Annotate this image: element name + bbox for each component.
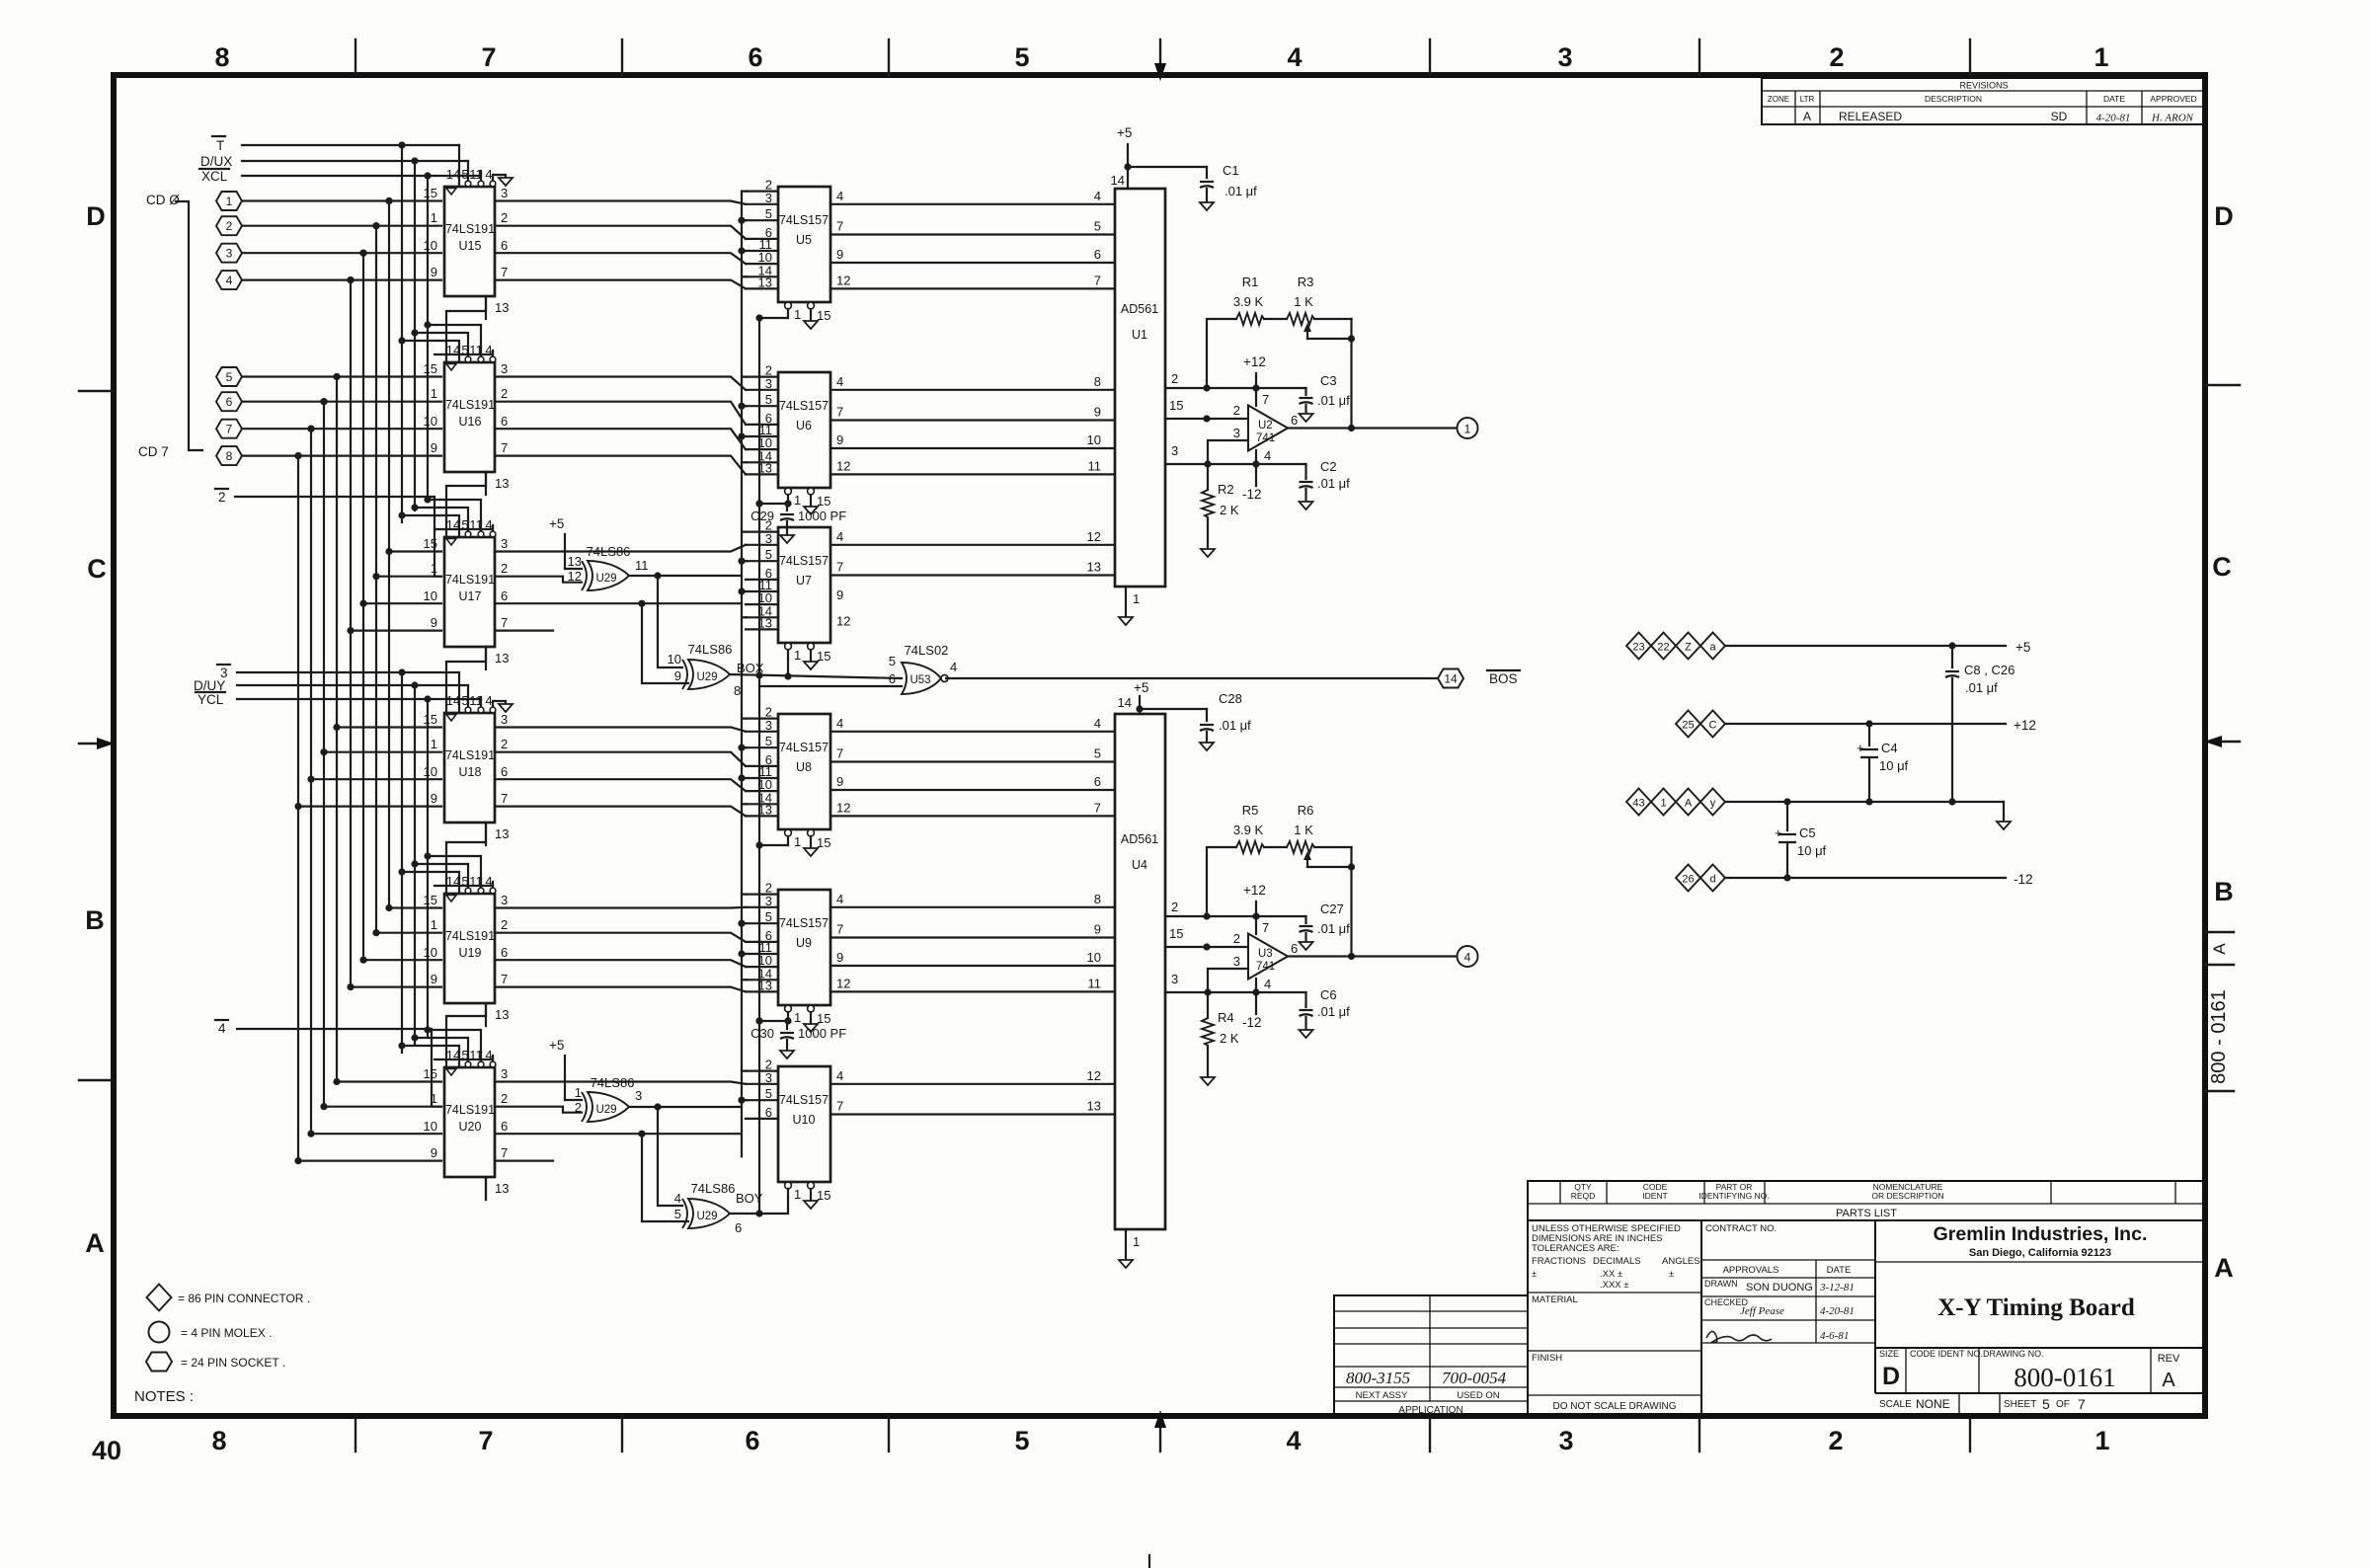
- svg-text:10: 10: [1087, 432, 1101, 447]
- svg-text:3: 3: [501, 536, 508, 551]
- svg-text:741: 741: [1256, 432, 1275, 444]
- svg-text:ANGLES: ANGLES: [1662, 1256, 1700, 1267]
- svg-text:U2: U2: [1258, 420, 1273, 431]
- ground at U10 pin 15: [804, 1201, 818, 1209]
- svg-text:U18: U18: [459, 765, 482, 779]
- svg-text:5: 5: [226, 370, 233, 384]
- counter U18 (74LS191): [424, 693, 510, 845]
- svg-text:X-Y Timing Board: X-Y Timing Board: [1937, 1294, 2135, 1321]
- svg-text:R1: R1: [1242, 274, 1259, 289]
- ground at U7 pin 15: [804, 662, 818, 669]
- svg-text:10: 10: [668, 652, 681, 666]
- svg-text:4: 4: [1264, 448, 1271, 463]
- svg-text:SON DUONG: SON DUONG: [1746, 1282, 1813, 1294]
- bottom center tick mark: [1148, 1555, 1150, 1568]
- wire op-amp pin 7: [1255, 916, 1257, 934]
- counter U16 (74LS191): [424, 343, 510, 495]
- svg-text:.01 μf: .01 μf: [1317, 476, 1350, 491]
- svg-text:= 86 PIN CONNECTOR .: = 86 PIN CONNECTOR .: [178, 1292, 310, 1305]
- svg-text:13: 13: [495, 476, 509, 491]
- svg-text:74LS157: 74LS157: [779, 741, 829, 754]
- svg-text:USED ON: USED ON: [1457, 1390, 1499, 1401]
- wire U29a output: [629, 572, 742, 579]
- svg-text:BOS: BOS: [1489, 671, 1518, 686]
- connector pin 3 (24 pin socket): [216, 244, 242, 263]
- svg-text:D: D: [86, 201, 106, 231]
- DAC U4 (AD561): [1115, 714, 1165, 1229]
- svg-text:12: 12: [836, 800, 850, 815]
- svg-text:U16: U16: [459, 415, 482, 429]
- svg-text:1: 1: [431, 1091, 437, 1106]
- svg-text:A: A: [1685, 798, 1693, 810]
- wire DAC pin 3 net: [1165, 443, 1306, 468]
- svg-text:74LS191: 74LS191: [445, 222, 495, 236]
- svg-text:9: 9: [674, 668, 681, 683]
- svg-text:8: 8: [1094, 892, 1101, 906]
- svg-text:U8: U8: [796, 760, 812, 774]
- ground at C28: [1200, 743, 1214, 750]
- border frame: [114, 75, 2205, 1416]
- svg-text:5: 5: [765, 1086, 772, 1101]
- zone numbers top: [214, 42, 2108, 72]
- svg-text:U29: U29: [696, 1211, 717, 1222]
- svg-text:U3: U3: [1258, 948, 1273, 960]
- svg-text:1: 1: [431, 917, 437, 932]
- wire BOX output to U53: [730, 671, 902, 679]
- wire CD7: [242, 452, 441, 459]
- svg-text:U10: U10: [793, 1113, 816, 1127]
- ground at C27: [1300, 942, 1313, 950]
- wire feedback left leg: [1207, 847, 1236, 916]
- svg-text:4: 4: [950, 660, 957, 674]
- capacitor C27 .01uf: [1300, 902, 1351, 942]
- svg-text:2: 2: [1171, 371, 1178, 386]
- svg-text:3: 3: [765, 191, 772, 205]
- wire YCL: [237, 695, 481, 702]
- svg-text:D/UY: D/UY: [194, 678, 225, 693]
- svg-text:1000 PF: 1000 PF: [798, 1026, 846, 1041]
- +5 at U29c: [549, 1038, 582, 1100]
- svg-text:XCL: XCL: [201, 169, 228, 184]
- wire bundle: counter clock/control taps: [398, 145, 493, 1059]
- svg-text:4: 4: [1464, 951, 1471, 965]
- svg-text:15: 15: [424, 1066, 437, 1081]
- svg-text:6: 6: [1291, 941, 1298, 956]
- ground at R4: [1201, 1077, 1215, 1085]
- connector pin 6 (24 pin socket): [216, 392, 242, 411]
- wire BOY output to U10 pin1: [730, 1198, 788, 1217]
- svg-text:ZONE: ZONE: [1768, 95, 1789, 104]
- svg-text:2: 2: [501, 386, 508, 401]
- svg-text:7: 7: [501, 265, 508, 279]
- svg-text:1: 1: [794, 1187, 801, 1202]
- svg-text:74LS157: 74LS157: [779, 554, 829, 568]
- svg-text:9: 9: [836, 950, 843, 965]
- svg-text:2: 2: [501, 210, 508, 225]
- svg-text:10: 10: [424, 588, 437, 603]
- ground at C1: [1200, 202, 1214, 210]
- svg-text:7: 7: [226, 423, 233, 436]
- svg-text:+12: +12: [1243, 354, 1266, 369]
- svg-text:5: 5: [1094, 746, 1101, 761]
- svg-text:-12: -12: [1242, 487, 1262, 502]
- svg-text:3-12-81: 3-12-81: [1819, 1282, 1855, 1294]
- svg-text:IDENT: IDENT: [1642, 1191, 1668, 1201]
- svg-text:D: D: [2214, 201, 2234, 231]
- svg-text:U17: U17: [459, 589, 482, 603]
- +12 supply at op-amp: [1243, 883, 1266, 916]
- wire -12 rail: [1725, 872, 2033, 887]
- connector output 1 (4 pin molex): [1458, 418, 1478, 438]
- svg-text:BOY: BOY: [736, 1191, 763, 1206]
- svg-text:4: 4: [836, 892, 843, 906]
- resistor R4 2K: [1202, 992, 1239, 1077]
- svg-text:13: 13: [495, 826, 509, 841]
- wire CD3: [242, 276, 441, 283]
- wire between resistors: [1264, 318, 1287, 320]
- svg-text:3.9 K: 3.9 K: [1233, 823, 1264, 837]
- node D/UX: [200, 154, 232, 169]
- svg-text:5: 5: [674, 1207, 681, 1221]
- svg-text:11: 11: [1088, 458, 1102, 473]
- svg-text:1: 1: [794, 307, 801, 322]
- svg-text:2: 2: [501, 737, 508, 751]
- wire +5 rail: [1725, 640, 2030, 655]
- application block: [1334, 1295, 1528, 1416]
- wire U6 pin 1 to select bus: [759, 503, 788, 505]
- svg-text:6: 6: [748, 42, 762, 72]
- svg-text:4: 4: [485, 693, 492, 708]
- legend: 86 pin connector symbol: [147, 1285, 311, 1311]
- svg-text:5: 5: [889, 654, 896, 668]
- svg-text:Jeff Pease: Jeff Pease: [1740, 1305, 1784, 1317]
- wire U9 pin 1 to select bus: [759, 1020, 788, 1022]
- svg-text:1: 1: [794, 834, 801, 849]
- svg-text:a: a: [1709, 642, 1716, 654]
- svg-text:2: 2: [218, 490, 226, 505]
- resistor R5 3.9K: [1233, 803, 1264, 853]
- svg-text:6: 6: [501, 945, 508, 960]
- wire pot wiper / feedback right leg: [1307, 319, 1355, 431]
- svg-text:FINISH: FINISH: [1532, 1353, 1562, 1364]
- svg-text:3: 3: [501, 893, 508, 907]
- svg-text:4: 4: [836, 189, 843, 203]
- svg-text:1: 1: [1660, 798, 1666, 810]
- svg-text:13: 13: [1087, 560, 1101, 575]
- xor gate U29c (74LS86): [575, 1075, 642, 1122]
- node T (overline): [212, 136, 225, 153]
- connector pin 1 (24 pin socket): [216, 192, 242, 210]
- svg-text:6: 6: [501, 588, 508, 603]
- svg-text:3: 3: [1233, 954, 1240, 969]
- multiplexer U7 (74LS157): [746, 518, 850, 664]
- svg-text:4: 4: [836, 1068, 843, 1083]
- svg-text:d: d: [1709, 874, 1715, 886]
- svg-text:2 K: 2 K: [1220, 503, 1239, 517]
- svg-text:= 4 PIN MOLEX .: = 4 PIN MOLEX .: [181, 1326, 272, 1340]
- svg-text:7: 7: [836, 219, 843, 234]
- counter U15 (74LS191): [424, 167, 510, 319]
- svg-text:.01 μf: .01 μf: [1317, 921, 1350, 936]
- svg-text:2: 2: [575, 1100, 582, 1115]
- wire ground rail: [1725, 798, 2004, 822]
- svg-text:1: 1: [1133, 1234, 1140, 1249]
- ground at U15 pin 4: [493, 175, 513, 186]
- svg-text:7: 7: [501, 1145, 508, 1160]
- svg-text:+12: +12: [1243, 883, 1266, 898]
- ground at U8 pin 15: [804, 848, 818, 856]
- wire op-amp pin 7: [1255, 388, 1257, 406]
- svg-text:3: 3: [226, 247, 233, 261]
- centerline arrow top: [1154, 39, 1166, 81]
- multiplexer U5 (74LS157): [746, 178, 850, 323]
- svg-text:.01 μf: .01 μf: [1219, 718, 1251, 733]
- wire CD0: [242, 197, 441, 204]
- svg-text:6: 6: [226, 395, 233, 409]
- svg-text:C: C: [87, 554, 107, 584]
- svg-text:-12: -12: [1242, 1015, 1262, 1030]
- svg-text:.XXX ±: .XXX ±: [1600, 1280, 1629, 1291]
- svg-text:+5: +5: [549, 1038, 564, 1053]
- potentiometer R6 1K: [1287, 803, 1314, 867]
- svg-text:2: 2: [1829, 42, 1844, 72]
- zone letters left: [85, 201, 107, 1258]
- wire DAC pin 15 to op-amp: [1165, 926, 1248, 951]
- wire between resistors: [1264, 846, 1287, 848]
- svg-text:+: +: [1775, 825, 1782, 840]
- wire CD2: [242, 250, 441, 257]
- svg-text:U5: U5: [796, 233, 812, 247]
- svg-text:74LS157: 74LS157: [779, 213, 829, 227]
- legend: 4 pin molex symbol: [149, 1322, 273, 1343]
- svg-text:6: 6: [1094, 247, 1101, 262]
- svg-text:U29: U29: [696, 671, 717, 683]
- svg-text:7: 7: [501, 791, 508, 806]
- svg-text:800-0161: 800-0161: [2014, 1363, 2116, 1392]
- ground at C29: [780, 535, 794, 543]
- svg-text:MATERIAL: MATERIAL: [1532, 1294, 1578, 1305]
- svg-text:800 - 0161: 800 - 0161: [2208, 989, 2230, 1084]
- svg-text:10 μf: 10 μf: [1879, 758, 1909, 773]
- svg-text:.01 μf: .01 μf: [1224, 184, 1257, 198]
- svg-text:6: 6: [889, 671, 896, 686]
- svg-text:4: 4: [226, 274, 233, 287]
- svg-text:25: 25: [1682, 720, 1694, 732]
- svg-text:2: 2: [1233, 403, 1240, 418]
- wire U29c output to BOY gate input 4: [658, 1107, 682, 1206]
- resistor R2 2K: [1202, 464, 1239, 549]
- svg-text:15: 15: [424, 893, 437, 907]
- node 3bar label: [217, 665, 230, 680]
- wire U5 pin 1 to select bus: [759, 317, 788, 319]
- svg-text:A: A: [2214, 1253, 2234, 1283]
- ground at U6 pin 15: [804, 507, 818, 514]
- svg-text:13: 13: [495, 300, 509, 315]
- svg-text:10 μf: 10 μf: [1797, 843, 1827, 858]
- svg-text:1: 1: [2094, 1426, 2109, 1455]
- svg-text:6: 6: [501, 1119, 508, 1134]
- svg-text:+5: +5: [1134, 680, 1148, 695]
- CD bracket: [176, 201, 202, 450]
- svg-text:+5: +5: [2015, 640, 2030, 655]
- wire T: [242, 141, 459, 148]
- svg-text:13: 13: [495, 1181, 509, 1196]
- ground at rail: [1997, 822, 2011, 829]
- +5 rail at U4 pin 14: [1118, 680, 1149, 714]
- svg-text:3.9 K: 3.9 K: [1233, 294, 1264, 309]
- svg-text:11: 11: [635, 558, 649, 573]
- svg-text:R4: R4: [1218, 1010, 1234, 1025]
- svg-text:AD561: AD561: [1121, 302, 1158, 316]
- svg-text:OR DESCRIPTION: OR DESCRIPTION: [1871, 1191, 1943, 1201]
- svg-text:4: 4: [836, 716, 843, 731]
- svg-text:74LS157: 74LS157: [779, 1093, 829, 1107]
- svg-text:10: 10: [1087, 950, 1101, 965]
- svg-text:40: 40: [92, 1436, 121, 1465]
- svg-text:2: 2: [501, 917, 508, 932]
- capacitor C30 1000 PF: [750, 1017, 846, 1051]
- svg-text:4: 4: [1286, 1426, 1301, 1455]
- multiplexer U9 (74LS157): [746, 881, 850, 1026]
- capacitor C6 .01uf: [1300, 987, 1351, 1030]
- svg-text:4: 4: [218, 1021, 226, 1036]
- capacitor C8,C26 .01uf: [1945, 646, 2014, 802]
- svg-text:6: 6: [1291, 413, 1298, 428]
- svg-text:NEXT ASSY: NEXT ASSY: [1356, 1390, 1408, 1401]
- centerline arrow left: [79, 738, 115, 749]
- svg-text:7: 7: [501, 972, 508, 986]
- svg-text:74LS86: 74LS86: [688, 642, 733, 657]
- svg-text:+5: +5: [1117, 125, 1132, 140]
- svg-text:74LS157: 74LS157: [779, 916, 829, 930]
- svg-text:C28: C28: [1219, 691, 1242, 706]
- svg-text:9: 9: [431, 265, 437, 279]
- xor gate U29b (74LS86) BOX: [668, 642, 764, 698]
- svg-text:15: 15: [424, 712, 437, 727]
- counter U17 (74LS191): [424, 517, 510, 669]
- svg-text:1: 1: [2093, 42, 2108, 72]
- ground at C6: [1300, 1030, 1313, 1038]
- svg-text:3: 3: [1171, 972, 1178, 986]
- node 2bar label: [215, 489, 228, 505]
- svg-text:1: 1: [575, 1085, 582, 1100]
- wire DAC pin 3 net: [1165, 972, 1306, 996]
- ground at U1 pin 1: [1119, 587, 1140, 625]
- svg-text:C27: C27: [1320, 902, 1344, 916]
- connector diamonds 23/22/Z/a (+5 feed): [1626, 633, 1725, 660]
- svg-text:7: 7: [481, 42, 496, 72]
- svg-text:C: C: [1709, 720, 1717, 732]
- wire D/UX: [242, 157, 468, 164]
- wire CD5: [242, 398, 441, 405]
- svg-text:DRAWN: DRAWN: [1704, 1279, 1738, 1289]
- svg-text:3: 3: [1233, 426, 1240, 440]
- +12 supply at op-amp: [1243, 354, 1266, 388]
- wire DAC pin 2 net: [1165, 371, 1306, 392]
- svg-text:IDENTIFYING NO.: IDENTIFYING NO.: [1698, 1191, 1769, 1201]
- +5 rail at U1 pin 14: [1111, 125, 1133, 189]
- svg-text:4: 4: [1287, 42, 1302, 72]
- svg-text:9: 9: [836, 247, 843, 262]
- svg-text:12: 12: [1087, 529, 1101, 544]
- node XCL (overline): [199, 169, 229, 184]
- svg-text:1: 1: [431, 737, 437, 751]
- wire: mux strobe vertical bus: [738, 192, 747, 1157]
- svg-text:+5: +5: [549, 516, 564, 531]
- svg-text:4: 4: [836, 529, 843, 544]
- svg-text:SCALE: SCALE: [1879, 1399, 1912, 1410]
- svg-text:±: ±: [1532, 1269, 1537, 1280]
- svg-text:700-0054: 700-0054: [1442, 1369, 1507, 1387]
- svg-text:9: 9: [1094, 405, 1101, 420]
- svg-text:12: 12: [1087, 1068, 1101, 1083]
- svg-text:74LS191: 74LS191: [445, 929, 495, 943]
- svg-text:APPLICATION: APPLICATION: [1398, 1405, 1462, 1416]
- svg-text:13: 13: [758, 274, 772, 289]
- svg-text:C29: C29: [750, 509, 774, 523]
- svg-text:74LS191: 74LS191: [445, 1103, 495, 1117]
- svg-text:RELEASED: RELEASED: [1839, 110, 1902, 123]
- wire D/UY: [237, 681, 468, 688]
- svg-text:3: 3: [1171, 443, 1178, 458]
- svg-text:+: +: [1856, 741, 1864, 755]
- wire U7 pin1 stub to BOX line: [787, 659, 789, 676]
- wire +12 rail: [1725, 718, 2036, 733]
- svg-text:3: 3: [765, 376, 772, 391]
- svg-text:7: 7: [836, 746, 843, 761]
- connector pin 7 (24 pin socket): [216, 420, 242, 438]
- svg-text:741: 741: [1256, 961, 1275, 973]
- wire bundle: clock/control verticals (Y group): [402, 672, 428, 1053]
- svg-text:11: 11: [469, 693, 483, 708]
- title block main: [1528, 1220, 2205, 1416]
- wire op-amp output: [1288, 427, 1457, 429]
- svg-text:U53: U53: [909, 674, 930, 686]
- svg-text:DATE: DATE: [1827, 1265, 1852, 1276]
- svg-text:9: 9: [431, 440, 437, 455]
- svg-text:4-6-81: 4-6-81: [1820, 1330, 1849, 1342]
- svg-text:T: T: [216, 138, 224, 153]
- svg-text:7: 7: [1262, 392, 1269, 407]
- svg-text:1: 1: [431, 386, 437, 401]
- svg-text:15: 15: [424, 536, 437, 551]
- wire CD6: [242, 426, 441, 432]
- resistor R1 3.9K: [1233, 274, 1264, 325]
- wire CD4: [242, 373, 441, 380]
- svg-text:4-20-81: 4-20-81: [1820, 1305, 1855, 1317]
- svg-text:2: 2: [1828, 1426, 1843, 1455]
- svg-text:REV: REV: [2158, 1353, 2180, 1365]
- svg-text:10: 10: [424, 945, 437, 960]
- wire CD1: [242, 222, 441, 229]
- ground at U9 pin 15: [804, 1024, 818, 1032]
- svg-text:6: 6: [745, 1426, 759, 1455]
- svg-text:1: 1: [794, 493, 801, 508]
- svg-text:15: 15: [424, 361, 437, 376]
- svg-text:R2: R2: [1218, 482, 1234, 497]
- centerline arrow right: [2204, 736, 2240, 747]
- svg-text:1: 1: [794, 1010, 801, 1025]
- connector pin 2 (24 pin socket): [216, 216, 242, 235]
- svg-text:3: 3: [765, 531, 772, 546]
- svg-text:74LS191: 74LS191: [445, 748, 495, 762]
- svg-text:3: 3: [1558, 1426, 1573, 1455]
- capacitor C4 10uf: [1856, 724, 1909, 802]
- svg-text:H. ARON: H. ARON: [2151, 113, 2194, 124]
- svg-text:13: 13: [1087, 1099, 1101, 1114]
- svg-text:Z: Z: [1685, 642, 1692, 654]
- ground at R2: [1201, 549, 1215, 557]
